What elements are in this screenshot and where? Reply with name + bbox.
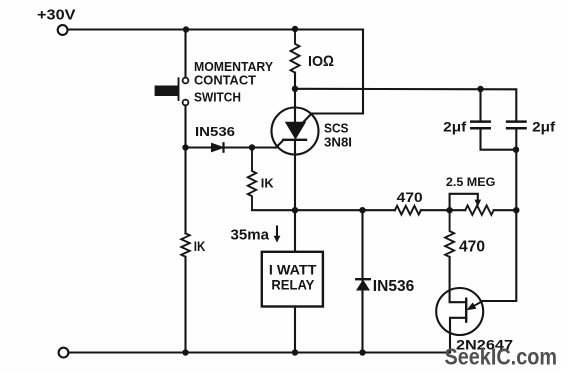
node diode wire / left branch bbox=[182, 144, 188, 150]
wire UJT emitter from right vertical bbox=[483, 210, 517, 301]
diode 1N536 (lower) bbox=[356, 279, 370, 290]
node mid rail / right vertical bbox=[513, 207, 519, 213]
svg-text:I WATT: I WATT bbox=[269, 261, 317, 277]
node mid rail / 470 vertical bbox=[446, 207, 452, 213]
op-amp? no: SCS 3N81 body circle bbox=[272, 108, 319, 155]
svg-text:IN536: IN536 bbox=[195, 124, 235, 139]
svg-text:2.5 MEG: 2.5 MEG bbox=[446, 175, 496, 189]
wire bottom rail bbox=[69, 351, 451, 353]
potentiometer wiper arm bbox=[450, 194, 482, 210]
wire SCS cathode down to relay bbox=[294, 140, 296, 252]
node lower diode bottom bbox=[359, 349, 365, 355]
terminal bottom-left output bbox=[59, 348, 69, 358]
wire switch to bottom rail (left branch) bbox=[184, 105, 186, 352]
node caps bottom junction bbox=[513, 147, 519, 153]
wire top rail bbox=[68, 28, 364, 30]
resistor 10 ohm with top lead bbox=[291, 29, 300, 73]
transistor Q1 2N2647 body circle bbox=[436, 288, 483, 335]
resistor 470 (horizontal) bbox=[395, 206, 421, 215]
wire SCS anode bbox=[294, 73, 296, 123]
svg-text:35ma: 35ma bbox=[231, 226, 270, 243]
node cap C1 top bbox=[477, 86, 483, 92]
node top rail / 10-ohm top bbox=[292, 26, 298, 32]
wire mid rail bbox=[252, 209, 516, 211]
svg-text:2μf: 2μf bbox=[443, 119, 466, 135]
svg-text:IN536: IN536 bbox=[373, 278, 415, 295]
UJT base bar bbox=[465, 299, 467, 322]
SCS anode triangle bbox=[286, 122, 306, 138]
node top rail / switch branch bbox=[183, 26, 189, 32]
node 10-ohm bottom / cap rail bbox=[292, 86, 298, 92]
resistor 1K (left branch) bbox=[181, 233, 189, 256]
svg-text:IOΩ: IOΩ bbox=[308, 53, 334, 70]
wire lower diode branch bbox=[361, 210, 363, 352]
resistor 470 (vertical) with leads bbox=[445, 210, 454, 257]
svg-text:SeekIC.com: SeekIC.com bbox=[445, 343, 558, 369]
svg-text:2μf: 2μf bbox=[532, 119, 555, 135]
capacitor C2 2uf bbox=[507, 122, 525, 211]
node lower diode top bbox=[359, 207, 365, 213]
wire UJT base-2 lead bbox=[450, 257, 465, 302]
node relay / bottom rail bbox=[292, 349, 298, 355]
svg-text:RELAY: RELAY bbox=[271, 276, 315, 292]
relay K1 box bbox=[262, 252, 323, 307]
svg-text:MOMENTARY: MOMENTARY bbox=[194, 59, 273, 74]
wire relay bottom lead bbox=[294, 307, 296, 353]
potentiometer 2.5 MEG element bbox=[465, 205, 494, 215]
svg-text:SCS: SCS bbox=[324, 120, 349, 135]
wire anode-gate loop (right side of top rail, down) bbox=[303, 30, 363, 123]
SCS cathode bar bbox=[283, 139, 306, 141]
svg-text:470: 470 bbox=[459, 238, 485, 255]
node SCS cathode / mid rail bbox=[292, 207, 298, 213]
svg-text:470: 470 bbox=[397, 190, 423, 205]
svg-text:IK: IK bbox=[194, 238, 206, 254]
node bottom rail / left branch bbox=[182, 349, 188, 355]
arrow 35ma downward bbox=[274, 227, 281, 243]
capacitor C1 2uf bbox=[471, 89, 516, 150]
diode 1N536 (upper) bbox=[212, 143, 224, 151]
svg-text:+30V: +30V bbox=[37, 7, 76, 24]
label MOMENTARY CONTACT SWITCH bbox=[194, 59, 273, 105]
wire capacitor feed rail y=89 bbox=[295, 89, 516, 121]
wire diode row to SCS gate bbox=[185, 140, 284, 148]
svg-text:3N8I: 3N8I bbox=[324, 134, 352, 149]
wire switch upper lead bbox=[184, 30, 186, 78]
label SCS 3N81 bbox=[324, 120, 352, 149]
UJT emitter arrow bbox=[468, 301, 483, 310]
svg-text:IK: IK bbox=[261, 176, 274, 190]
label 1 WATT RELAY bbox=[269, 261, 317, 292]
resistor 1K (gate) with leads bbox=[248, 148, 256, 211]
svg-text:CONTACT: CONTACT bbox=[194, 73, 256, 88]
svg-text:SWITCH: SWITCH bbox=[194, 90, 241, 105]
momentary contact switch S1 bbox=[155, 78, 189, 106]
node diode / 1K gate resistor bbox=[249, 144, 255, 150]
terminal +30V input bbox=[58, 25, 68, 35]
wire UJT base-1 lead to bottom rail bbox=[450, 318, 466, 353]
